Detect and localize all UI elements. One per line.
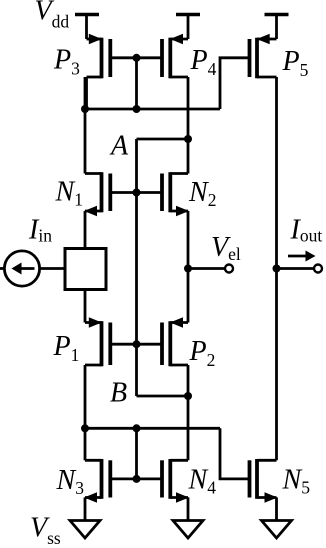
junction dot rail/P1-N3 drains	[81, 424, 89, 432]
Vdd supply bar 3 (P5)	[265, 13, 289, 16]
nmos N5	[250, 459, 278, 503]
svg-text:P4: P4	[190, 45, 217, 79]
junction dot node A	[184, 135, 192, 143]
level-shift box	[65, 249, 106, 290]
wire Vdd to P5 source	[275, 13, 278, 39]
svg-text:P3: P3	[53, 45, 80, 79]
wire N3 source to ground	[84, 498, 87, 521]
wire N2 source to P2 source	[187, 211, 190, 323]
junction dot Iout	[273, 265, 281, 273]
nmos N1	[84, 172, 110, 216]
nmos N2	[162, 172, 189, 216]
ground under N5	[262, 521, 292, 539]
bottom rail wire	[85, 427, 220, 430]
wire gates N1-N2	[110, 191, 162, 194]
wire P4 drain to N2 drain	[187, 77, 190, 174]
junction dot P1/P2 gates	[133, 340, 141, 348]
junction dot node B	[184, 392, 192, 400]
node Vel wire	[188, 267, 225, 270]
Iout direction arrow	[288, 251, 316, 262]
svg-text:N5: N5	[282, 465, 311, 498]
junction dot P3/P4 gates	[133, 54, 141, 62]
svg-text:P1: P1	[53, 331, 80, 365]
wire P3 drain to N1 drain	[85, 77, 88, 109]
wire box to P1 source	[84, 290, 87, 323]
ground under N4	[173, 521, 203, 539]
pmos P3	[87, 34, 111, 79]
svg-text:Iout: Iout	[290, 215, 323, 246]
svg-text:Iin: Iin	[28, 215, 52, 246]
wire rail down to N3/N4 gates	[135, 428, 138, 479]
pmos P5	[250, 34, 277, 79]
junction dot N1/N2 gates	[133, 189, 141, 197]
wire gates P1-P2	[110, 343, 162, 346]
wire P5 gate to top rail	[220, 58, 250, 109]
junction dot rail/gate bus	[133, 105, 141, 113]
wire Vdd to P4 source	[187, 13, 190, 39]
svg-text:N2: N2	[188, 177, 216, 210]
wire rail to N3 drain	[84, 428, 87, 460]
junction dot Vel	[184, 265, 192, 273]
wire gate bus A to B	[135, 139, 138, 396]
pmos P4	[162, 34, 188, 79]
wire gates P3-P4	[110, 56, 162, 59]
terminal Iout	[314, 265, 322, 273]
junction dot rail/P3 drain	[81, 105, 89, 113]
svg-text:Vss: Vss	[30, 513, 61, 548]
wire N1 source to level-shift box	[84, 211, 87, 249]
node B wire	[137, 395, 189, 398]
wire Vdd to P3 source	[85, 13, 88, 39]
svg-text:P5: P5	[282, 46, 309, 80]
svg-text:N1: N1	[55, 177, 83, 210]
node A wire	[137, 138, 189, 141]
Vdd supply bar 1 (P3)	[75, 13, 99, 16]
wire gate bus to top rail	[135, 58, 138, 109]
ground Vss under N3	[70, 521, 100, 539]
nmos N4	[162, 459, 189, 503]
junction dot rail/lower gate bus	[133, 424, 141, 432]
svg-text:B: B	[110, 378, 127, 409]
top rail wire	[85, 108, 220, 111]
pmos P1	[85, 317, 110, 366]
svg-text:Vdd: Vdd	[35, 0, 70, 32]
wire gates N3-N4	[110, 477, 162, 480]
junction dot N3/N4 gates	[133, 475, 141, 483]
node Iout wire	[277, 267, 315, 270]
svg-text:N4: N4	[188, 465, 217, 498]
svg-text:N3: N3	[56, 465, 85, 498]
svg-text:A: A	[109, 131, 129, 162]
wire P1 drain to bottom rail	[84, 365, 87, 428]
wire N4 source to ground	[187, 498, 190, 521]
current source Iin	[0, 251, 40, 286]
wire P2 drain to N4 drain	[187, 365, 190, 460]
nmos N3	[84, 459, 110, 503]
Vdd supply bar 2 (P4)	[176, 13, 200, 16]
pmos P2	[162, 317, 188, 366]
wire N5 gate to bottom rail	[220, 428, 250, 479]
wire Iin to box	[40, 267, 65, 270]
svg-text:Vel: Vel	[211, 232, 241, 264]
svg-text:P2: P2	[189, 336, 216, 370]
terminal Vel	[225, 265, 233, 273]
wire N5 source to ground	[275, 498, 278, 521]
wire P5 drain to N5 drain	[275, 77, 278, 460]
